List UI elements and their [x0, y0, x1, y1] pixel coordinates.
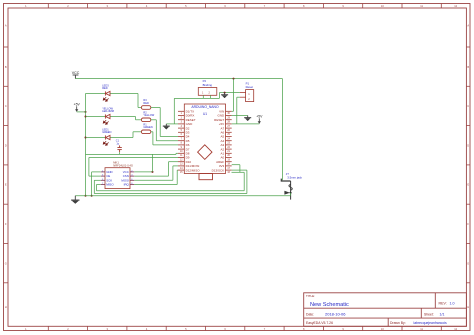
MK1 pins: [101, 172, 135, 185]
wire R3 to D4: [151, 107, 160, 109]
wire rail to jack sleeve: [290, 193, 292, 196]
wire VCC top rail: [75, 78, 282, 80]
svg-text:B: B: [467, 65, 469, 69]
LED LED3 RED: [105, 91, 110, 95]
svg-text:New Schematic: New Schematic: [310, 302, 349, 308]
ground near Arduino GND left: [163, 124, 170, 129]
svg-text:E: E: [5, 183, 7, 187]
wire P2 to GND pin: [173, 98, 175, 124]
wire top rail to jack: [282, 79, 284, 181]
wire bottom GND rail: [75, 195, 290, 197]
ground right of Arduino: [244, 116, 251, 121]
svg-text:RED: RED: [143, 101, 149, 105]
wire LED2 row: [86, 116, 106, 118]
node junction LED2 row: [85, 116, 87, 118]
resistor R2 YELLOW: [141, 118, 150, 122]
wire R1 to D6: [151, 131, 153, 133]
wire R2 to D5: [151, 119, 157, 121]
wire P1 pin2 down to +5V row: [237, 96, 240, 98]
svg-text:Binding: Binding: [203, 83, 213, 87]
svg-text:G: G: [467, 261, 469, 265]
wire GND right to ground: [232, 115, 248, 117]
wire NRF MOSI to D11: [134, 179, 173, 181]
svg-text:D: D: [467, 143, 469, 147]
wire LED1 row: [86, 137, 106, 139]
wire P1 pin1 to ground: [225, 92, 240, 94]
svg-text:Reset: Reset: [246, 85, 254, 89]
svg-text:C: C: [5, 104, 7, 108]
svg-text:A: A: [5, 23, 7, 27]
svg-text:Drawn By:: Drawn By:: [390, 321, 406, 325]
wire 3V3 loop: [232, 171, 245, 173]
svg-text:+5V: +5V: [74, 102, 81, 106]
wire 3V3 horizontal rail to D8: [86, 153, 177, 155]
node junction NRF VCC: [152, 171, 154, 173]
ground P1: [221, 93, 228, 98]
wire NRF GND to rail: [92, 171, 101, 173]
connector P2 Binding: [198, 88, 217, 96]
node junction bottom rail left: [85, 195, 87, 197]
LED LED1 GREEN: [105, 135, 110, 139]
wire NRF IRQ to D12: [134, 184, 177, 186]
capacitor C1 1u: [117, 145, 121, 152]
wire P2 legs: [202, 95, 204, 98]
wire NRF SCK to D13: [94, 179, 101, 181]
wire +5V to LED column: [77, 111, 86, 113]
svg-text:RED: RED: [102, 86, 108, 90]
svg-text:NRF24L01-0.4G: NRF24L01-0.4G: [113, 164, 133, 168]
op-amp U1 ARDUINO_NANO body: [184, 104, 225, 174]
svg-text:D: D: [5, 143, 7, 147]
svg-text:GREEN: GREEN: [102, 130, 111, 134]
wire VCC rail to VIN: [233, 79, 235, 112]
wire LED3 row: [86, 93, 106, 95]
svg-text:3.5mm jack: 3.5mm jack: [287, 176, 302, 180]
svg-text:B: B: [5, 65, 7, 69]
svg-text:+5V: +5V: [256, 114, 263, 118]
svg-text:H: H: [467, 305, 469, 309]
title block: [304, 293, 467, 327]
node junction NRF GND rail: [91, 195, 93, 197]
svg-text:TITLE:: TITLE:: [306, 294, 315, 298]
wire NRF MISO rail: [97, 184, 101, 186]
svg-text:1/1: 1/1: [440, 313, 445, 317]
svg-text:H: H: [5, 305, 7, 309]
wire NRF CE to D9: [89, 175, 101, 177]
svg-text:VCC: VCC: [72, 71, 80, 75]
svg-text:D12/MISO: D12/MISO: [186, 168, 201, 172]
wire LED column vertical: [85, 94, 87, 196]
svg-text:EasyEDA V5.7.26: EasyEDA V5.7.26: [306, 321, 333, 325]
svg-text:Date:: Date:: [306, 313, 314, 317]
svg-text:A: A: [467, 23, 469, 27]
wire P2 to ground net: [174, 97, 219, 99]
module MK1 NRF24L01 body: [105, 168, 130, 189]
jack sleeve arrow: [284, 191, 290, 195]
svg-text:2018-10-06: 2018-10-06: [325, 312, 346, 317]
connector P1 Reset: [246, 90, 254, 102]
ground bottom left: [71, 196, 79, 204]
svg-text:labrecquejeanfrancois: labrecquejeanfrancois: [414, 321, 447, 325]
svg-text:D13/SCK: D13/SCK: [212, 168, 225, 172]
wire NRF VCC to 3V3 rail: [134, 171, 152, 173]
resistor R1 GREEN: [141, 130, 150, 134]
node junction LED1 row: [85, 137, 87, 139]
node junction +5V: [85, 111, 87, 113]
Arduino diamond mark: [198, 145, 212, 160]
resistor R3 RED: [141, 106, 150, 110]
node junction P1 ground: [224, 92, 226, 94]
Arduino USB connector: [199, 174, 213, 180]
svg-text:E: E: [467, 183, 469, 187]
wire +5V row right: [232, 123, 260, 125]
svg-text:YELLOW: YELLOW: [143, 113, 154, 117]
wire NRF CSN to D10: [134, 175, 168, 177]
svg-text:REV:: REV:: [439, 302, 447, 306]
svg-text:GREEN: GREEN: [143, 125, 152, 129]
Arduino pins right: [226, 111, 232, 170]
svg-text:LED-3MM: LED-3MM: [102, 109, 114, 113]
Arduino pins left: [178, 111, 184, 170]
svg-text:1.0: 1.0: [450, 302, 455, 306]
svg-text:IRQ: IRQ: [124, 183, 130, 187]
node junction VCC rail: [233, 78, 235, 80]
svg-text:U1: U1: [203, 112, 207, 116]
svg-text:Sheet:: Sheet:: [424, 313, 434, 317]
svg-text:MISO: MISO: [106, 183, 114, 187]
svg-text:G: G: [5, 261, 7, 265]
wire C1 to rail: [119, 152, 121, 154]
svg-text:C: C: [467, 104, 469, 108]
LED YELLOW LED-3MM: [105, 114, 110, 118]
svg-text:ARDUINO_NANO: ARDUINO_NANO: [191, 105, 219, 109]
